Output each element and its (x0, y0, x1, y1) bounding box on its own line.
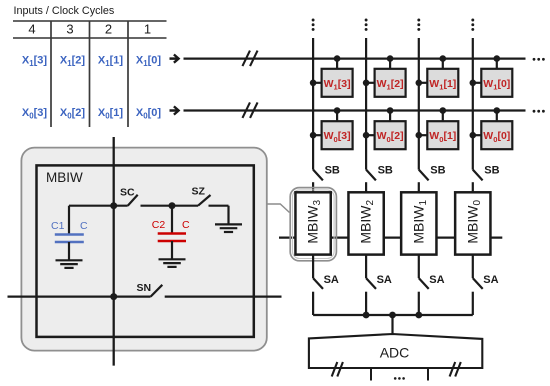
svg-text:W0[2]: W0[2] (377, 130, 404, 144)
svg-text:X1[3]: X1[3] (22, 54, 48, 68)
svg-text:SB: SB (484, 164, 499, 176)
svg-text:C: C (80, 220, 88, 232)
svg-text:MBIW0: MBIW0 (464, 200, 483, 244)
svg-text:SA: SA (483, 274, 498, 286)
svg-text:X1[2]: X1[2] (60, 54, 86, 68)
svg-text:SB: SB (378, 164, 393, 176)
svg-text:MBIW1: MBIW1 (410, 200, 429, 244)
svg-text:SB: SB (430, 164, 445, 176)
svg-text:X0[2]: X0[2] (60, 107, 86, 121)
svg-text:W1[1]: W1[1] (429, 78, 456, 92)
svg-text:W1[0]: W1[0] (483, 78, 510, 92)
svg-text:SA: SA (377, 274, 392, 286)
svg-text:W0[3]: W0[3] (324, 130, 351, 144)
svg-text:C1: C1 (51, 220, 65, 232)
svg-text:3: 3 (66, 22, 73, 37)
svg-text:SC: SC (120, 187, 135, 199)
svg-text:X1[0]: X1[0] (136, 54, 162, 68)
svg-text:4: 4 (28, 22, 35, 37)
svg-text:X0[1]: X0[1] (98, 107, 124, 121)
svg-text:ADC: ADC (380, 345, 410, 361)
svg-text:MBIW2: MBIW2 (358, 200, 377, 244)
svg-text:C: C (182, 219, 190, 231)
svg-text:SN: SN (137, 282, 152, 294)
svg-text:2: 2 (105, 22, 112, 37)
svg-text:SZ: SZ (192, 186, 206, 198)
svg-text:X1[1]: X1[1] (98, 54, 124, 68)
svg-text:W1[3]: W1[3] (324, 78, 351, 92)
svg-text:MBIW: MBIW (46, 170, 83, 185)
svg-text:W0[0]: W0[0] (483, 130, 510, 144)
svg-text:Inputs / Clock Cycles: Inputs / Clock Cycles (14, 5, 115, 17)
svg-text:1: 1 (144, 22, 151, 37)
svg-text:X0[3]: X0[3] (22, 107, 48, 121)
svg-text:MBIW3: MBIW3 (305, 200, 324, 244)
svg-text:C2: C2 (152, 219, 166, 231)
svg-text:SA: SA (429, 274, 444, 286)
svg-text:SA: SA (324, 274, 339, 286)
svg-text:W1[2]: W1[2] (377, 78, 404, 92)
svg-text:W0[1]: W0[1] (429, 130, 456, 144)
svg-text:X0[0]: X0[0] (136, 107, 162, 121)
svg-text:SB: SB (325, 164, 340, 176)
